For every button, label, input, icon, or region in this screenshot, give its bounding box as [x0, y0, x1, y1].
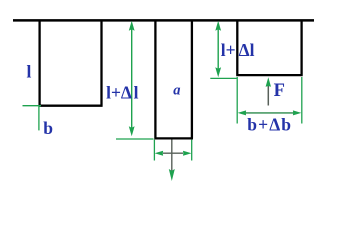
reference line at block3 bottom level	[210, 77, 236, 79]
force arrow below block2 (down)	[171, 140, 173, 172]
b+delta-b dimension double arrow	[243, 112, 296, 114]
extension lines below block2	[153, 140, 155, 161]
dimension arrow l+delta-l (right, x=218.2)	[217, 27, 219, 71]
svg-text:F: F	[274, 81, 285, 101]
svg-text:l+Δ: l+Δ	[106, 83, 132, 103]
svg-text:l+: l+	[221, 40, 236, 60]
block 2 (stretched, width a)	[154, 20, 193, 138]
dimension arrow l+delta-l (left, x=131.7)	[131, 27, 133, 130]
svg-text:l: l	[27, 61, 32, 81]
svg-text:Δl: Δl	[239, 40, 255, 60]
width-a dimension double arrow	[163, 152, 183, 154]
svg-text:a: a	[173, 83, 180, 99]
svg-text:l: l	[134, 83, 139, 103]
block 1 (original, length l width b)	[39, 20, 103, 106]
extension lines below block3	[236, 77, 238, 124]
green corner mark: width b tick (horizontal)	[23, 105, 42, 107]
svg-text:b+Δb: b+Δb	[247, 114, 292, 134]
block 3 (stretched, width b+delta-b)	[236, 20, 303, 75]
reference line at block2 bottom level	[116, 138, 154, 140]
green corner mark: vertical drop at block1 bottom-left	[38, 106, 40, 131]
svg-text:b: b	[43, 118, 53, 138]
force arrow F (up)	[267, 85, 269, 106]
ceiling line	[13, 19, 314, 22]
